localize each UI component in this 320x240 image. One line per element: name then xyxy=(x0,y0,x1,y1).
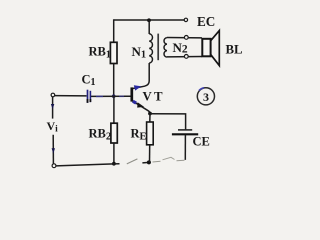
wire: top supply rail xyxy=(114,19,185,21)
faint worn wire segment xyxy=(127,159,138,164)
svg-text:EC: EC xyxy=(197,14,215,29)
wire: bottom rail into RE node xyxy=(142,161,150,164)
wire: RE bottom lead xyxy=(149,145,151,163)
emitter arrow xyxy=(132,100,137,105)
inductor N2 (secondary winding) xyxy=(164,38,167,58)
arrow on input line (upper) xyxy=(51,104,54,109)
capacitor C1 plates xyxy=(87,90,89,103)
wire: N2 top to speaker xyxy=(167,37,202,39)
terminal: N2 top (open circle) xyxy=(184,36,188,40)
terminal: input bottom (open circle) xyxy=(52,164,56,168)
wire: N1 top lead xyxy=(148,20,150,34)
node: base wire / RB junction xyxy=(112,94,116,98)
blue scan dash on base wire xyxy=(96,96,103,98)
circled figure number 3 xyxy=(197,88,214,105)
wire: top rail down to RB1 xyxy=(113,19,115,42)
capacitor CE top plate xyxy=(178,129,192,131)
resistor RB2 xyxy=(111,123,117,143)
wire: input left lower xyxy=(52,135,54,164)
wire: input terminal to C1 xyxy=(55,95,87,97)
wire: base wire from C1 to base xyxy=(91,95,131,97)
wire: base node down to RB2 xyxy=(113,96,115,123)
transistor VT: emitter lead xyxy=(132,101,150,114)
wire: CE bottom lead xyxy=(184,135,186,160)
arrow on input line (lower) xyxy=(52,148,55,153)
transistor VT: base bar xyxy=(130,87,133,101)
wire: N2 bottom to speaker xyxy=(167,56,202,58)
svg-text:3: 3 xyxy=(203,90,209,104)
node: emitter junction xyxy=(148,112,152,116)
svg-text:BL: BL xyxy=(226,43,243,57)
wire: RB1 to base node xyxy=(113,64,115,97)
speaker BL: cone xyxy=(211,31,219,66)
wire: N1 bottom to collector xyxy=(132,63,149,89)
terminal EC (open circle) xyxy=(184,18,187,21)
terminal: input top (open circle) xyxy=(51,93,55,97)
inductor N1 (primary winding) xyxy=(149,34,152,63)
wire: emitter to CE xyxy=(150,114,186,130)
node: junction top rail / N1 xyxy=(147,18,151,22)
wire: emitter junction down to RE xyxy=(149,114,151,123)
svg-text:VT: VT xyxy=(143,90,165,104)
speaker BL: coil box xyxy=(202,39,210,57)
faint worn wire toward CE xyxy=(153,160,161,163)
wire: bottom rail xyxy=(56,164,120,166)
svg-text:CE: CE xyxy=(193,135,210,149)
node: bottom rail / RB2 junction xyxy=(112,162,116,166)
capacitor CE bottom plate xyxy=(172,133,198,135)
resistor RB1 xyxy=(110,42,117,63)
terminal: N2 bottom (open circle) xyxy=(184,55,188,59)
node: bottom rail / RE junction xyxy=(147,160,151,164)
transformer core xyxy=(157,34,159,61)
wire: RB2 to bottom rail xyxy=(113,143,115,164)
resistor RE xyxy=(147,122,154,145)
collector arrow (blue scan tint) xyxy=(134,85,141,90)
wire: input left upper xyxy=(52,97,54,119)
